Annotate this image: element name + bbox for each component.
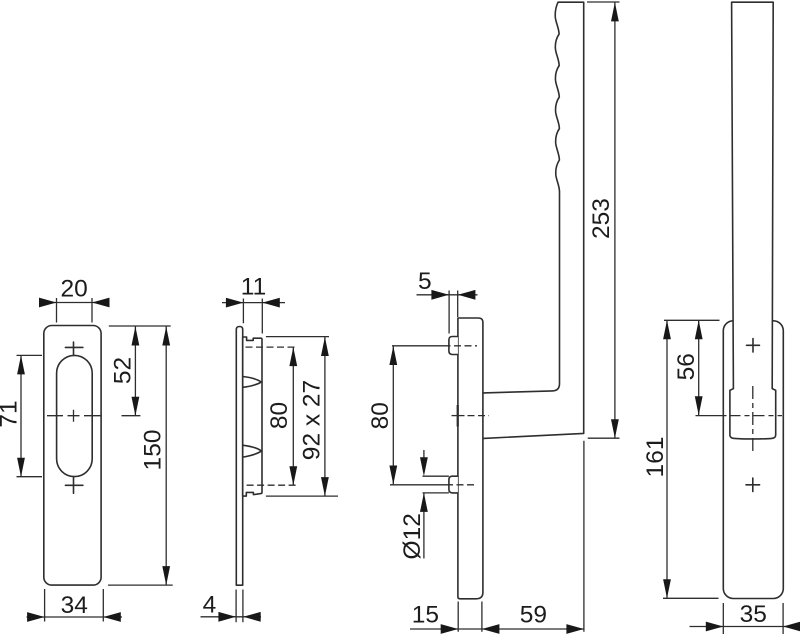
oval slot [57,355,93,476]
thin plate profile [236,327,242,586]
svg-text:15: 15 [412,601,439,628]
dim 11 extension lines [243,299,262,334]
dim 34 line [27,616,123,618]
dim 35 line [690,626,800,628]
svg-text:Ø12: Ø12 [399,513,426,559]
dim 56 arrows [695,320,703,339]
dim 253 arrows [611,2,619,21]
dim 34 arrows [27,612,45,622]
dim 35 arrows [706,622,724,632]
svg-text:5: 5 [418,268,432,295]
dim 161 arrows [663,320,671,339]
dim 4 line [201,616,262,618]
underplate block [243,337,262,496]
dim 59 right arrow [566,624,584,634]
svg-text:20: 20 [60,276,87,303]
svg-text:92 x 27: 92 x 27 [299,380,326,460]
dim 80 arrows [289,347,297,366]
dim 71 extension lines [17,355,43,476]
svg-text:71: 71 [0,400,22,427]
svg-text:80: 80 [266,402,293,429]
dim 161 bottom extension [663,597,719,599]
dim 5 line [417,294,478,296]
dim 150 arrows [162,327,170,346]
upper screw centerline [246,346,298,348]
dim 15 arrow [441,624,459,634]
dim 4 arrows [218,612,236,622]
dim 92x27 line [324,337,326,496]
plate center cross [452,415,465,417]
upper screw boss [449,337,458,355]
lower screw centerline [247,484,298,486]
dim 4 extension lines [236,590,243,623]
svg-text:35: 35 [740,601,767,628]
dim O12 arrows [420,457,428,476]
dim 20 extension lines [57,298,93,323]
dim O12 extension lines [423,476,449,493]
dim 253 line [614,2,616,438]
handle bar and neck front [730,2,776,439]
lower screw cross [746,478,760,492]
dim 5 extension lines [449,291,458,334]
svg-text:4: 4 [203,592,217,619]
dim 52 line [134,327,136,416]
svg-text:161: 161 [642,437,669,478]
dim 161 line [666,320,668,598]
lower screw boss [449,476,458,493]
dim 11 line [222,302,285,304]
dim 80 left line [292,347,294,485]
svg-text:11: 11 [241,274,266,301]
top screw cross [65,342,83,355]
dim 71 line [20,355,22,476]
svg-text:80: 80 [367,402,394,429]
dim 150 bottom extension [108,584,173,586]
clip tooth upper [243,377,261,388]
dim 92x27 extension lines [266,337,338,497]
handle bar and arm [484,2,584,438]
dim 52 arrows [132,327,140,346]
dim 71 arrows [17,355,25,374]
bottom extension lines 15/59 [458,441,584,632]
top right extension line (52/150) [109,325,171,327]
plate outline [44,326,101,586]
vertical centerline [752,386,754,452]
handle plate side outline [458,318,483,599]
svg-text:253: 253 [588,198,615,239]
dim 56 extension (center) [696,415,727,417]
center cross [47,410,101,422]
svg-text:56: 56 [673,353,700,380]
horizontal centerline [730,415,783,417]
dim 253 extension lines [587,2,620,438]
svg-text:52: 52 [110,357,137,384]
bottom screw cross [65,477,83,493]
dim 92x27 arrows [321,337,329,356]
svg-text:150: 150 [140,430,167,471]
top extension line (56/161) [664,319,720,321]
dim 80 arrows [389,346,397,365]
handle plate front outline [723,321,783,599]
dim 150 line [165,327,167,586]
upper screw centerline [392,345,444,347]
clip tooth lower [243,445,261,457]
dim 20 arrows [39,298,57,308]
dim 35 extension lines [723,603,783,634]
dim O12 lines [423,450,425,559]
dim 52 bottom extension [122,415,141,417]
dim 34 extension lines [45,589,104,622]
top screw cross [747,339,760,353]
dim 56 line [698,320,700,415]
dim 11 arrows [226,298,244,308]
dim 5 arrows [431,290,449,300]
dim 80 line [392,346,394,485]
dim 15/59 middle arrow [482,624,500,634]
svg-text:34: 34 [61,592,88,619]
dim 15/59 line [410,628,584,630]
lower screw centerline [390,484,446,486]
dim 20 line [40,302,109,304]
svg-text:59: 59 [520,601,547,628]
